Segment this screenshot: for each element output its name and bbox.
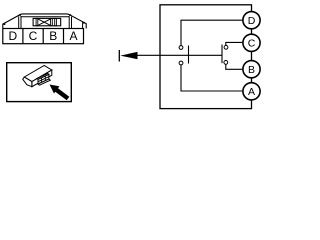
svg-text:D: D <box>248 15 256 27</box>
icon top face <box>24 66 52 82</box>
icon front face <box>32 70 52 87</box>
svg-text:C: C <box>248 37 256 49</box>
svg-text:B: B <box>49 29 57 43</box>
cell divider B|A <box>63 29 65 44</box>
svg-text:A: A <box>248 86 255 98</box>
housing right mount tab hole <box>83 22 85 24</box>
latch right bar <box>51 18 53 25</box>
switch S2 contact to C <box>224 45 228 49</box>
icon socket bottom strip <box>38 79 50 85</box>
icon socket block <box>38 74 49 84</box>
svg-text:D: D <box>8 29 17 43</box>
svg-text:C: C <box>29 29 38 43</box>
housing left mount tab hole <box>4 23 6 25</box>
switch S1 contact to D <box>179 46 183 50</box>
wire: terminal A branch <box>181 65 242 91</box>
connector location legend box <box>7 63 72 102</box>
icon socket top strip <box>37 74 49 80</box>
connector housing top outline <box>3 14 86 29</box>
terminal circle C <box>243 34 260 51</box>
cell divider C|B <box>42 29 44 44</box>
switch S1 blade <box>188 46 190 64</box>
latch frame <box>33 18 61 25</box>
latch second right bar <box>55 18 57 25</box>
signal arrow bar <box>118 50 120 62</box>
latch X cross <box>38 19 51 26</box>
latch left bar <box>36 18 38 25</box>
icon socket grid <box>38 76 49 82</box>
connector J1 pinout front view <box>3 14 86 29</box>
housing raised center left double edge <box>19 16 21 28</box>
terminal cell row <box>3 29 84 44</box>
svg-text:A: A <box>69 29 77 43</box>
switch S2 blade <box>221 45 223 64</box>
switch S2 contact to B <box>224 61 228 65</box>
wire: terminal C branch <box>226 42 243 45</box>
connector latch block with X mark <box>33 18 61 25</box>
icon left end face <box>23 77 32 87</box>
wire: terminal D branch <box>181 20 242 45</box>
svg-text:B: B <box>248 64 255 76</box>
switch S1 contact to A <box>179 61 183 65</box>
connector housing inner rim line <box>19 14 71 16</box>
terminal circle D <box>243 12 260 29</box>
housing right tab edge <box>82 22 84 29</box>
connector 3D icon <box>23 66 52 87</box>
wire: common feed <box>138 54 223 56</box>
switch body frame <box>160 5 252 109</box>
terminal row frame <box>3 29 84 44</box>
terminal circle B <box>243 61 260 78</box>
signal arrow head <box>120 52 137 59</box>
terminal circle A <box>243 83 260 100</box>
cell divider D|C <box>22 29 24 44</box>
housing raised center right double edge <box>69 17 71 29</box>
legend black arrow <box>50 85 70 101</box>
wire: terminal B branch <box>226 64 243 69</box>
